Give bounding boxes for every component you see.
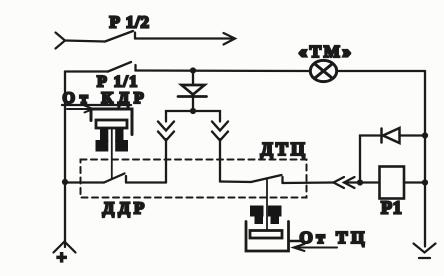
wire: DTC contact out of box bbox=[283, 181, 335, 184]
pressure switch KDR: cylinder bbox=[91, 109, 132, 135]
label − polarity bbox=[419, 257, 430, 259]
wire: top line left segment bbox=[65, 41, 105, 42]
node: arrow from KDR (pointing right) bbox=[67, 106, 93, 113]
svg-text:Р1: Р1 bbox=[381, 198, 403, 218]
wire: top line right segment bbox=[135, 37, 234, 39]
node: underline of От КДР bbox=[62, 104, 131, 106]
pressure switch TC: cylinder bbox=[246, 222, 289, 252]
switch blade P 1/1 bbox=[108, 62, 131, 72]
pressure switch KDR: piston bbox=[96, 120, 127, 128]
diode VD1 (pointing down) bbox=[178, 85, 207, 97]
wire: bus line left segment (to P 1/1) bbox=[65, 70, 108, 72]
diode VD2 (pointing left) bbox=[382, 128, 400, 143]
svg-text:+: + bbox=[57, 248, 67, 268]
wire: right rail bbox=[424, 71, 426, 247]
wire: bus line right segment bbox=[337, 70, 425, 72]
wire: to diode VD1 bbox=[192, 71, 194, 86]
wire: left rail bbox=[64, 72, 66, 248]
svg-text:От ТЦ: От ТЦ bbox=[300, 228, 368, 247]
node: arrow down (right rail bottom) bbox=[414, 244, 436, 253]
node: incoming connector chevron (top-left) bbox=[56, 33, 66, 49]
fixed contact hook of DTC bbox=[281, 177, 283, 183]
wire: DTC operating rod to TC pressure switch bbox=[266, 179, 268, 234]
wire: chevrons to junction bbox=[344, 181, 360, 183]
wire: DDR contact to left valve branch bbox=[126, 181, 166, 183]
pressure switch KDR: seals (black) bbox=[96, 128, 129, 152]
relay coil P1 bbox=[380, 167, 405, 199]
node: supply arrow up (left rail bottom) bbox=[54, 242, 76, 253]
wire: up to diode VD2 bbox=[360, 136, 380, 183]
wire: junction to relay coil bbox=[360, 181, 380, 183]
wire: relay coil to right rail bbox=[404, 181, 425, 183]
switch blade DDR bbox=[104, 174, 125, 183]
lamp TM bbox=[310, 60, 336, 81]
relay enclosure (dashed box) bbox=[81, 160, 307, 198]
wire: right valve down to DTC contact bbox=[219, 139, 221, 182]
wire: left valve down to DDR contact bbox=[165, 139, 167, 183]
wire: right valve to DTC blade bbox=[220, 180, 251, 183]
pressure switch TC: seals (black) bbox=[250, 206, 282, 225]
svg-text:«ТМ»: «ТМ» bbox=[299, 42, 354, 61]
node: junction on left rail bbox=[62, 179, 68, 185]
svg-text:ДДР: ДДР bbox=[103, 199, 149, 218]
pressure switch TC: piston bbox=[250, 231, 282, 239]
wire: diode VD2 to right rail bbox=[400, 134, 426, 136]
node: junction diode/right rail bbox=[422, 132, 428, 138]
node: arrow to the right (top line end) bbox=[224, 33, 236, 45]
node: junction left of relay P1 bbox=[357, 179, 363, 185]
wire: left rail to DDR contact bbox=[65, 181, 104, 183]
wire: KDR operating rod to DDR blade bbox=[111, 128, 113, 179]
wire: branch to left valve bbox=[166, 111, 193, 122]
wire: branch to right valve bbox=[193, 111, 220, 122]
svg-text:ДТЦ: ДТЦ bbox=[261, 139, 308, 159]
switch blade P 1/2 bbox=[105, 31, 133, 42]
node: arrow from TC (pointing left) bbox=[294, 244, 338, 251]
node: junction on bus line bbox=[190, 67, 196, 73]
fixed contact hook of P 1/2 bbox=[134, 33, 136, 39]
svg-text:Р 1/1: Р 1/1 bbox=[97, 74, 139, 91]
fixed contact hook of P 1/1 bbox=[134, 65, 136, 71]
pressure switch TC: connection stub bbox=[289, 240, 301, 242]
node: junction coil/right rail bbox=[422, 179, 428, 185]
valve (double chevron) right bbox=[212, 122, 228, 141]
valve (double chevron) left bbox=[158, 122, 174, 141]
wire: bus line middle segment bbox=[136, 69, 311, 72]
wire: below diode VD1 bbox=[192, 97, 194, 112]
node: double chevron connector (to TC) bbox=[334, 177, 355, 188]
svg-text:Р 1/2: Р 1/2 bbox=[110, 13, 150, 32]
switch blade DTC bbox=[251, 175, 282, 182]
fixed contact hook of DDR bbox=[125, 176, 127, 183]
node: junction below VD1 bbox=[190, 108, 196, 114]
